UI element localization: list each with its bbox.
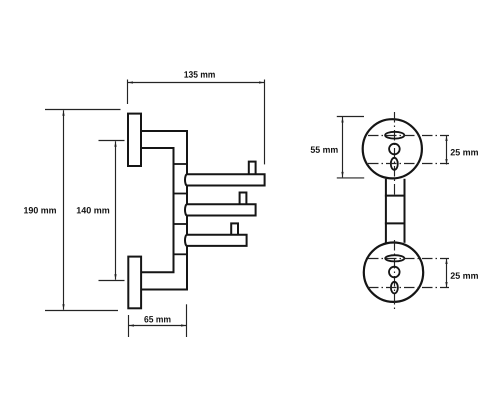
- top circle: lower slot ellipse: [391, 158, 398, 170]
- dimension 25 mm top: arrow bottom: [445, 159, 447, 165]
- dimension 140 mm: dimension line: [115, 141, 117, 280]
- dimension 55 mm: bottom reference bar: [337, 177, 364, 179]
- hook 3 peg: [231, 223, 238, 239]
- front view: stem left edge: [385, 179, 387, 243]
- front view: stem right edge: [404, 179, 406, 243]
- dimension 190 mm: label: [24, 207, 56, 214]
- bottom circle: lower slot ellipse: [391, 282, 398, 294]
- front view: vertical centerline: [394, 112, 396, 196]
- dimension 140 mm: arrow top: [114, 141, 116, 147]
- bottom circle: screw slot ellipse: [385, 255, 404, 261]
- dimension 190 mm: arrow bottom: [62, 304, 64, 310]
- dimension 25 mm top: label: [451, 149, 478, 156]
- front view: stem division line 1: [385, 195, 406, 197]
- front view: bottom mounting circle: [364, 243, 423, 302]
- top circle: centerline through slot: [368, 135, 449, 137]
- post sleeve division line 4: [173, 253, 189, 255]
- post sleeve division line 2: [173, 193, 189, 195]
- dimension 140 mm: arrow bottom: [114, 274, 116, 280]
- dimension 65 mm: arrow right: [181, 324, 187, 326]
- post sleeve division line 3: [173, 223, 189, 225]
- dimension 25 mm bottom: dimension line: [446, 259, 448, 288]
- hook 3 arm: [185, 235, 247, 246]
- dimension 135 mm: extension line left: [127, 80, 129, 105]
- dimension 135 mm: arrow right: [259, 81, 265, 83]
- bottom circle: centerline through lower slot: [368, 287, 449, 289]
- front view: top mounting circle: [363, 119, 422, 178]
- dimension 140 mm: top reference bar: [99, 140, 125, 142]
- dimension 135 mm: extension line right: [264, 80, 266, 165]
- dimension 135 mm: arrow left: [128, 81, 134, 83]
- dimension 135 mm: dimension line: [128, 82, 265, 84]
- hook 1 arm: [185, 174, 265, 185]
- dimension 140 mm: label: [77, 207, 109, 214]
- hook 1 peg: [249, 162, 256, 178]
- top circle: centerline through lower slot: [368, 163, 449, 165]
- dimension 55 mm: dimension line: [342, 117, 344, 177]
- dimension 55 mm: arrow top: [341, 117, 343, 123]
- dimension 65 mm: arrow left: [129, 324, 135, 326]
- dimension 25 mm top: arrow top: [445, 136, 447, 142]
- dimension 65 mm: label: [144, 316, 170, 323]
- dimension 190 mm: arrow top: [62, 110, 64, 116]
- dimension 25 mm top: dimension line: [446, 136, 448, 165]
- top circle: screw hole circle: [389, 144, 400, 155]
- dimension 140 mm: bottom reference bar: [99, 280, 125, 282]
- post sleeve division line 1: [173, 163, 189, 165]
- dimension 135 mm: label: [184, 71, 214, 78]
- front view: vertical centerline lower part: [394, 240, 396, 311]
- bottom wall plate: [128, 257, 141, 309]
- left side-view: bracket body (top arm + post + bottom arm): [141, 131, 187, 290]
- top wall plate: [128, 114, 141, 166]
- bottom circle: centerline through slot: [368, 258, 449, 260]
- top circle: screw slot ellipse: [385, 132, 404, 139]
- dimension 25 mm bottom: arrow top: [445, 259, 447, 265]
- dimension 65 mm: extension line right: [186, 304, 188, 337]
- dimension 55 mm: label: [311, 146, 338, 152]
- bottom circle: screw hole circle: [389, 267, 400, 278]
- dimension 190 mm: bottom reference bar: [45, 310, 118, 312]
- hook 2 arm: [185, 204, 256, 215]
- dimension 65 mm: extension line left: [128, 315, 130, 337]
- dimension 55 mm: arrow bottom: [341, 172, 343, 178]
- dimension 25 mm bottom: label: [451, 272, 478, 279]
- dimension 55 mm: top reference bar: [337, 116, 364, 118]
- front view: stem division line 2: [385, 222, 406, 224]
- dimension 190 mm: top reference bar: [45, 109, 121, 111]
- dimension 25 mm bottom: arrow bottom: [445, 282, 447, 288]
- dimension 65 mm: dimension line: [129, 325, 187, 327]
- dimension 190 mm: dimension line: [63, 110, 65, 310]
- hook 2 peg: [240, 193, 247, 209]
